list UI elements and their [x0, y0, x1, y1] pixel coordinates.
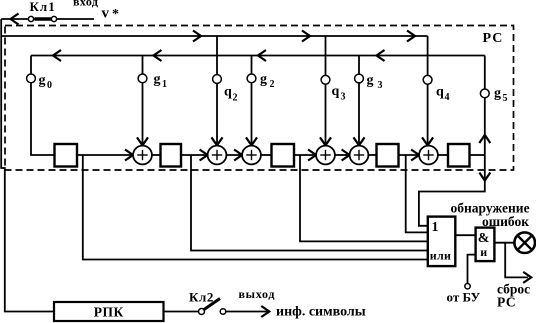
label g0 — [39, 73, 53, 91]
wire g5 feedback vertical (lower bus end down, exits box) — [419, 56, 485, 226]
svg-text:РС: РС — [483, 31, 504, 46]
arrow left on lower bus 3 — [258, 50, 266, 61]
label выход — [239, 287, 276, 301]
svg-text:g: g — [39, 73, 46, 88]
node g3 circle — [355, 74, 364, 83]
label g3 — [367, 73, 383, 91]
node g1 circle — [138, 74, 147, 83]
svg-text:ошибок: ошибок — [482, 214, 529, 229]
arrow into X2 left — [200, 150, 208, 161]
svg-text:v: v — [102, 6, 110, 22]
svg-text:3: 3 — [341, 92, 346, 103]
arrow right on top bus 1 — [193, 31, 201, 42]
wire X2 to X3 — [226, 154, 242, 156]
node g5 circle — [480, 89, 489, 98]
arrow up on feedback vertical — [479, 135, 490, 143]
arrow into X4 left — [308, 150, 316, 161]
svg-text:g: g — [494, 86, 501, 101]
wire cell5 output to feedback vertical — [470, 154, 485, 156]
svg-text:3: 3 — [378, 80, 383, 91]
dashed register box PC — [5, 26, 514, 171]
OR gate U1 — [428, 217, 456, 267]
wire AND to lamp — [494, 242, 514, 244]
AND gate U2 — [476, 228, 495, 262]
node q2 circle — [213, 75, 222, 84]
svg-text:q: q — [436, 85, 444, 100]
wire lower feedback bus — [31, 55, 485, 57]
label v* — [102, 6, 120, 23]
svg-text:вход: вход — [73, 0, 98, 9]
svg-text:РС: РС — [497, 295, 516, 310]
label q4 — [436, 85, 450, 104]
node q4 circle — [423, 75, 432, 84]
arrow into adder X1 — [137, 137, 148, 145]
node g2 circle — [247, 74, 256, 83]
wire X4 to X5 — [335, 154, 350, 156]
wire X3 to cell3 — [261, 154, 272, 156]
arrow right on top bus 3 — [407, 31, 415, 42]
wire left vertical input down to RPK — [1, 19, 54, 312]
adder X3 — [242, 146, 261, 165]
svg-text:2: 2 — [270, 79, 275, 90]
switch Кл1 contacts and blade — [28, 16, 56, 21]
svg-text:от БУ: от БУ — [447, 290, 481, 305]
svg-text:&: & — [478, 231, 490, 246]
label g1 — [154, 72, 168, 90]
arrow down on feedback vertical below box — [479, 173, 490, 181]
wire OR to AND — [455, 234, 475, 236]
arrow into adder X2 — [212, 137, 223, 145]
arrow left on lower bus 1 — [53, 50, 61, 61]
switch Кл2 — [199, 299, 226, 315]
label g2 — [260, 72, 275, 90]
arrow right on output wire — [261, 306, 269, 317]
svg-text:*: * — [112, 7, 119, 22]
arrow into X1 left — [125, 150, 133, 161]
svg-text:g: g — [154, 72, 161, 87]
adder X2 — [208, 146, 227, 165]
register cell 2 — [161, 144, 182, 167]
arrow into X3 left — [234, 150, 242, 161]
wire tap q2 vertical from top bus — [216, 36, 218, 145]
adder X4 — [316, 146, 335, 165]
adder X5 — [350, 146, 369, 165]
register cell 5 — [448, 144, 470, 167]
label PC — [483, 31, 504, 46]
svg-text:или: или — [430, 248, 451, 262]
block РПК — [54, 302, 164, 321]
label сброс РС — [497, 282, 530, 310]
register cell 3 — [272, 144, 295, 167]
label Кл1 — [30, 0, 56, 14]
wire tap q4 vertical (top bus turns down) — [427, 36, 429, 145]
node q3 circle — [321, 75, 330, 84]
lamp indicator HL1 — [514, 232, 535, 253]
wire reset сброс РС — [505, 243, 528, 278]
wire tap g0 vertical — [31, 56, 55, 156]
adder X1 — [133, 146, 152, 165]
label q2 — [224, 85, 238, 104]
wire tap down to OR input A — [83, 155, 428, 260]
arrow right on top bus 2 — [302, 31, 310, 42]
svg-text:1: 1 — [162, 79, 167, 90]
wire cell2 to adder X2 — [181, 154, 208, 156]
arrow left on lower bus 4 — [377, 50, 385, 61]
svg-text:РПК: РПК — [94, 305, 124, 320]
wire cell4 to adder X6 — [399, 154, 420, 156]
wire input v* horizontal — [1, 18, 94, 20]
svg-text:инф. символы: инф. символы — [276, 305, 366, 320]
svg-text:q: q — [332, 84, 340, 99]
wire РПК to switch Кл2 — [164, 311, 199, 313]
label g5 — [494, 86, 508, 104]
wire X5 to cell4 — [368, 154, 376, 156]
svg-text:1: 1 — [432, 220, 439, 235]
arrow left on lower bus 2 — [154, 50, 162, 61]
arrow into adder X5 — [354, 137, 365, 145]
svg-text:и: и — [480, 245, 487, 259]
wire tap down to OR input D — [406, 155, 428, 232]
svg-text:4: 4 — [445, 92, 450, 103]
svg-text:Кл1: Кл1 — [30, 0, 56, 14]
arrow into adder X6 — [422, 137, 433, 145]
wire tap g2 vertical — [251, 56, 253, 146]
register cell 1 — [55, 144, 78, 167]
wire tap down to OR input C — [300, 155, 428, 241]
svg-text:2: 2 — [233, 93, 238, 104]
wire cell3 to adder X4 — [294, 154, 316, 156]
wire X6 to cell5 — [438, 154, 448, 156]
wire tap g1 vertical — [142, 56, 144, 146]
arrow right on reset wire — [523, 272, 531, 283]
label инф. символы — [276, 305, 366, 320]
node от БУ terminal circle — [465, 284, 470, 289]
svg-text:0: 0 — [47, 80, 52, 91]
label Кл2 — [189, 290, 214, 305]
arrow into X5 left — [342, 150, 350, 161]
register cell 4 — [377, 144, 399, 167]
arrow into adder X4 — [320, 137, 331, 145]
arrow left on input wire — [11, 14, 19, 25]
wire top bus — [1, 35, 427, 37]
wire tap g3 vertical — [358, 56, 360, 146]
node g0 circle — [27, 74, 36, 83]
adder X6 — [419, 146, 438, 165]
label обнаружение ошибок — [451, 200, 530, 229]
wire от БУ input to AND — [468, 255, 476, 284]
wire output — [226, 311, 269, 313]
wire cell1 to adder X1 — [77, 154, 133, 156]
svg-text:g: g — [260, 72, 267, 87]
label от БУ — [447, 290, 481, 305]
svg-text:выход: выход — [239, 287, 276, 301]
label q3 — [332, 84, 346, 103]
wire X1 to cell2 — [152, 154, 161, 156]
svg-text:g: g — [367, 73, 374, 88]
arrow into adder X3 — [246, 137, 257, 145]
svg-text:q: q — [224, 85, 232, 100]
label вход — [73, 0, 98, 9]
arrow into X6 left — [411, 150, 419, 161]
svg-text:Кл2: Кл2 — [189, 290, 214, 305]
wire tap q3 vertical from top bus — [325, 36, 327, 145]
wire tap down to OR input B — [191, 155, 428, 251]
svg-text:5: 5 — [503, 93, 508, 104]
